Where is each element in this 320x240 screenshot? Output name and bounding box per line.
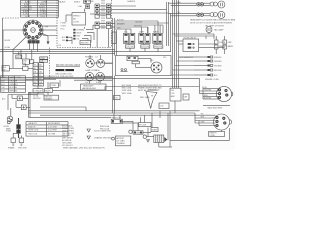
svg-text:CONN: CONN <box>51 85 57 87</box>
svg-text:PULSE LIM TR: PULSE LIM TR <box>184 37 197 39</box>
pod label box <box>72 13 86 26</box>
headlamp note text <box>190 18 237 27</box>
chassis harness label <box>179 56 194 59</box>
battery BT1 <box>154 135 164 143</box>
svg-text:R.H.CTRL: R.H.CTRL <box>141 46 149 48</box>
svg-text:START: START <box>153 31 160 34</box>
svg-text:CONN: CONN <box>209 135 215 137</box>
svg-text:BLK/RED: BLK/RED <box>204 97 212 99</box>
stator connector P2 <box>214 114 232 130</box>
pod left pin list <box>61 23 67 31</box>
battery feed circle <box>112 137 115 140</box>
svg-text:V.R.: V.R. <box>163 57 167 59</box>
pod stack drop wires <box>97 29 108 48</box>
svg-text:START: START <box>152 128 159 131</box>
svg-text:YEL/RED: YEL/RED <box>135 22 143 24</box>
svg-text:T-BLK: T-BLK <box>40 16 46 18</box>
ignition coil box <box>114 96 121 100</box>
svg-text:HI BEAM: HI BEAM <box>85 56 93 59</box>
battery arrow marker <box>164 137 167 142</box>
relay boxes mid-left <box>33 89 53 93</box>
headlight connector labels <box>85 56 100 85</box>
speedo top connector stack <box>78 0 91 9</box>
wires from relays <box>8 82 113 95</box>
svg-text:MAG SIDE VIEW: MAG SIDE VIEW <box>208 107 223 110</box>
accessory plug box <box>12 96 28 101</box>
svg-text:YB14A-A2: YB14A-A2 <box>116 142 124 145</box>
right headlight socket connector <box>197 13 204 16</box>
svg-text:WIRE DIAGRAM - 1994 400L 4X4,: WIRE DIAGRAM - 1994 400L 4X4, W948140 P/… <box>63 147 105 150</box>
svg-text:CLSTR: CLSTR <box>73 21 80 23</box>
indicator bulb above relay box <box>205 28 207 30</box>
indicator lower pad rows <box>62 36 68 42</box>
dimmer switch box <box>23 59 30 65</box>
stator connector lead wires <box>195 113 216 126</box>
resistor stack R1 <box>214 36 226 54</box>
svg-text:CHASSIS: CHASSIS <box>127 0 136 3</box>
brake switch box <box>16 55 22 59</box>
wires connector stacks to chassis harness <box>90 6 169 27</box>
svg-text:LIGHT COIL: LIGHT COIL <box>28 130 38 132</box>
svg-text:L.H.CTRL: L.H.CTRL <box>126 46 134 48</box>
thumb warmer box <box>30 60 34 64</box>
tail lamp feed wires <box>173 33 215 40</box>
accessory plug box 2 <box>16 105 30 110</box>
svg-text:PRIMARY: PRIMARY <box>45 97 54 100</box>
left edge label <box>2 97 6 100</box>
svg-text:RED/WH: RED/WH <box>10 81 18 83</box>
ground symbol (arrow) at switch <box>47 36 50 45</box>
svg-text:REGULATOR MOUNTS TO: REGULATOR MOUNTS TO <box>138 84 162 87</box>
fuse holder boxes above strip <box>40 57 48 63</box>
switch position label <box>45 26 48 28</box>
svg-text:YL: YL <box>34 75 36 77</box>
accessory lead rows (right middle) <box>194 56 222 77</box>
svg-text:GRN 14GA: GRN 14GA <box>122 89 132 92</box>
svg-text:R.H.: R.H. <box>96 70 100 72</box>
svg-text:BRN/WHT: BRN/WHT <box>117 24 125 26</box>
headlight connector HL2 <box>97 59 105 67</box>
left headlight bulb B1 <box>218 1 225 8</box>
svg-text:BRN/WH: BRN/WH <box>214 57 222 59</box>
battery circuit wires <box>122 121 172 147</box>
chassis vertical harness riser <box>113 18 117 113</box>
stator connector wire labels <box>201 114 206 124</box>
svg-text:ASM: ASM <box>171 95 175 98</box>
wire color legend list <box>62 125 75 147</box>
right headlight bulb socket pins <box>210 13 217 17</box>
main harness bus (horizontal, mid) <box>0 50 171 54</box>
svg-text:SW: SW <box>2 69 5 71</box>
lower horizontal bus <box>0 78 200 87</box>
accessory pin table (lower-left) <box>1 76 26 93</box>
svg-text:RED/WH: RED/WH <box>214 70 222 72</box>
inline connector strip CS1 <box>33 63 38 87</box>
svg-text:OIL: OIL <box>77 39 80 41</box>
legend symbol triangle 1 <box>87 129 111 132</box>
kill switch pair SW1 <box>124 33 135 43</box>
svg-text:RESISTANCE: RESISTANCE <box>48 122 61 125</box>
wire from switch to left harness <box>3 30 23 78</box>
svg-text:HEADLAMPS 12V 60/60W HALOGEN S: HEADLAMPS 12V 60/60W HALOGEN SEALED BEAM <box>190 18 235 21</box>
bus drop stubs bottom <box>114 111 170 147</box>
ignition coil secondary box <box>170 88 181 113</box>
regulator internal marks <box>121 69 128 72</box>
plug cap box <box>183 94 189 100</box>
svg-text:HARNESS ASM: HARNESS ASM <box>82 87 96 90</box>
wire switch to ground arrow <box>42 33 49 36</box>
ignition switch pin table <box>21 0 59 18</box>
headlamp feed wires top-right <box>169 3 211 16</box>
svg-text:SPEEDO: SPEEDO <box>73 15 81 17</box>
svg-text:YL: YL <box>39 75 41 77</box>
headlight connector HL1 <box>86 59 95 68</box>
svg-text:B-G: B-G <box>1 84 5 86</box>
headlamp harness label box <box>81 84 107 90</box>
svg-text:14 GA: 14 GA <box>88 0 94 3</box>
engine connector underline <box>203 104 230 106</box>
svg-text:ENGINE CONN: ENGINE CONN <box>205 79 219 81</box>
svg-text:TAIL LAMP: TAIL LAMP <box>214 28 224 31</box>
bus annotation <box>44 75 56 78</box>
engine connector label <box>205 79 219 81</box>
relay box feed wires <box>177 36 225 48</box>
starter relay small box <box>151 128 158 132</box>
switch labels above <box>124 31 160 34</box>
svg-text:GRN/WH: GRN/WH <box>214 61 222 63</box>
wire label left of switch <box>5 40 11 49</box>
starter solenoid box <box>133 131 144 135</box>
switch label boxes below <box>126 45 163 49</box>
voltage regulator module box <box>116 56 172 76</box>
tail lamp bulb B3 <box>206 27 212 33</box>
svg-text:OFF: OFF <box>45 26 48 28</box>
svg-text:KILL: KILL <box>124 32 128 34</box>
horn H1 <box>7 108 13 124</box>
right vertical harness bundle <box>167 0 179 88</box>
harness boundary near strips (dashed) <box>49 48 51 81</box>
svg-text:FRAME: FRAME <box>8 146 15 149</box>
coil bracket box <box>159 103 169 109</box>
ground note text <box>8 146 28 149</box>
engine connector note <box>208 107 223 110</box>
svg-text:RED 14GA: RED 14GA <box>100 127 110 130</box>
ground lug box engine <box>19 136 24 146</box>
svg-text:CHASSIS GROUND: CHASSIS GROUND <box>94 136 112 139</box>
svg-text:4WD IND: 4WD IND <box>81 42 89 44</box>
tail lamp label <box>214 28 224 31</box>
pod internal labels <box>59 0 95 47</box>
svg-text:W-BLU: W-BLU <box>74 2 81 4</box>
starter switch pair SW3 <box>153 33 162 43</box>
switch riser wires <box>126 21 163 33</box>
svg-text:STATOR: STATOR <box>28 125 36 128</box>
svg-text:CDI: CDI <box>150 60 154 62</box>
svg-text:WARM: WARM <box>228 45 234 48</box>
svg-text:H ILL: H ILL <box>61 29 65 31</box>
svg-text:SW: SW <box>23 63 26 65</box>
stator connector label box <box>209 132 225 137</box>
headlight switch pair SW2 <box>139 33 150 43</box>
svg-text:RED 12GA TO SOL: RED 12GA TO SOL <box>56 72 73 75</box>
legend symbol triangle 2 <box>87 136 112 139</box>
auxiliary terminal circle <box>129 130 132 133</box>
svg-text:CAPACITY: CAPACITY <box>28 122 38 125</box>
left headlight bulb socket pins <box>210 2 217 6</box>
headlight connector HL4 <box>96 72 105 81</box>
svg-text:COIL: COIL <box>160 106 164 108</box>
brake light relay box <box>183 37 199 51</box>
inline connector stack J2 <box>106 4 110 18</box>
stator drop wire <box>170 128 230 140</box>
svg-text:ETC SW: ETC SW <box>139 125 146 127</box>
svg-text:YEL/RED: YEL/RED <box>204 89 212 91</box>
inline connector stack J3 <box>95 22 111 29</box>
override switch box <box>23 66 28 70</box>
left frame wire <box>2 18 4 78</box>
svg-text:BLK/YEL: BLK/YEL <box>117 20 124 22</box>
horn label <box>4 126 10 128</box>
svg-text:LIGHT: LIGHT <box>139 32 145 34</box>
svg-text:BLK/W: BLK/W <box>5 40 11 42</box>
label text below regulator <box>122 84 162 99</box>
wires switch upper contacts <box>42 26 58 36</box>
diagram title text <box>63 147 105 150</box>
svg-text:COIL: COIL <box>114 97 118 99</box>
wire from switch to pod boundary <box>43 29 57 31</box>
svg-text:TRIG COIL: TRIG COIL <box>28 133 37 135</box>
svg-text:GA-BLK: GA-BLK <box>59 1 67 4</box>
4wd switch label box <box>2 66 9 72</box>
svg-text:0.24 OHM: 0.24 OHM <box>48 130 57 132</box>
svg-text:HI BEAM: HI BEAM <box>77 29 85 32</box>
solid state ground triangle <box>147 140 150 143</box>
battery box small boxes <box>115 136 130 146</box>
engine connector lead wires <box>200 78 220 99</box>
solenoid terminal circle <box>143 135 146 138</box>
battery info table <box>26 122 68 137</box>
indicator terminal strip T1 <box>73 29 84 41</box>
svg-text:TAILLAMP 12V 8/27W: TAILLAMP 12V 8/27W <box>205 25 224 28</box>
engine connector P1 <box>216 86 232 101</box>
ignition switch S1 (rear view) <box>23 20 43 40</box>
engine connector wire labels <box>204 87 212 100</box>
svg-text:LT RELAY: LT RELAY <box>34 89 43 92</box>
gauge battery table <box>56 64 81 78</box>
svg-text:23 OHM: 23 OHM <box>48 133 55 135</box>
svg-text:BLU/WH: BLU/WH <box>10 87 18 89</box>
svg-text:BATTERY GROUND CABLE: BATTERY GROUND CABLE <box>56 64 81 67</box>
throttle safety box <box>139 123 152 127</box>
wire from terminals down to bus <box>30 43 38 51</box>
speedometer lead wires <box>66 15 106 22</box>
spark plug boot wedge <box>146 89 160 109</box>
ground lug box frame <box>11 136 15 146</box>
pod harness boundary (dashed) <box>3 0 112 48</box>
svg-text:16 GA: 16 GA <box>5 46 11 49</box>
switch drop wires to box <box>129 44 158 52</box>
lower harness bus <box>28 111 199 118</box>
battery connector block pair <box>17 125 21 134</box>
svg-text:BRN/YEL: BRN/YEL <box>10 90 18 92</box>
regulator wires inside <box>136 59 151 68</box>
svg-text:F 4WD: F 4WD <box>61 23 67 25</box>
svg-text:TO CHASSIS: TO CHASSIS <box>44 75 56 78</box>
solenoid pads <box>134 132 142 134</box>
left headlight socket connector <box>197 3 204 6</box>
aux connector box <box>50 83 59 88</box>
svg-text:RED/WH: RED/WH <box>33 98 41 100</box>
main fuse label <box>6 127 12 132</box>
wire gauge labels lower-left <box>33 95 41 100</box>
svg-text:THROTTL: THROTTL <box>154 46 162 48</box>
CDI connector circle <box>151 62 162 73</box>
accessory row feeders from bundle <box>171 57 194 75</box>
svg-text:WHT 14GA: WHT 14GA <box>122 92 132 95</box>
ignition coil primary box <box>44 92 59 100</box>
lamp wires to pins <box>90 55 101 84</box>
svg-text:SPARK PLUG: SPARK PLUG <box>148 89 160 92</box>
svg-text:0.19 OHM: 0.19 OHM <box>48 126 57 128</box>
svg-text:BATTERY: BATTERY <box>116 137 125 140</box>
svg-text:COIL: COIL <box>171 93 175 95</box>
fuse holder block <box>111 117 122 124</box>
regulator diode blocks <box>127 56 139 64</box>
wire diagonal from switch to lower-left <box>13 37 27 63</box>
svg-text:VIO-VIOLET: VIO-VIOLET <box>62 145 73 147</box>
chassis harness top label <box>127 0 136 3</box>
wires left bottom <box>8 92 48 138</box>
headlight connector HL3 <box>85 72 94 81</box>
right headlight bulb B2 <box>218 11 225 18</box>
wires left switch cluster <box>9 50 33 69</box>
resistor stack R2 <box>223 36 233 54</box>
svg-text:RED 14GA: RED 14GA <box>122 87 132 90</box>
svg-text:HEADLAMP: HEADLAMP <box>83 85 94 88</box>
svg-text:ENG GRD: ENG GRD <box>19 147 28 149</box>
inline connector stack J1 <box>95 4 99 18</box>
headlamp wire labels <box>177 2 181 14</box>
handlebar bus wires (center top) <box>115 21 169 29</box>
svg-text:BLK 14GA: BLK 14GA <box>122 84 132 87</box>
ignition switch terminal block <box>28 41 39 44</box>
svg-text:GRN/BLK: GRN/BLK <box>10 84 19 86</box>
fuse lead text <box>100 125 110 131</box>
4wd indicator box <box>80 41 91 45</box>
junction block (left of switches) <box>112 32 116 44</box>
svg-text:G SPD: G SPD <box>61 26 67 28</box>
svg-text:YEL/RED: YEL/RED <box>214 66 222 68</box>
lamp feed wires to riser <box>94 63 113 77</box>
svg-text:G-OR: G-OR <box>25 16 31 18</box>
svg-text:NOTE: DO NOT TOUCH GLASS WITH: NOTE: DO NOT TOUCH GLASS WITH FINGERS <box>190 22 233 25</box>
svg-text:RED 14GA: RED 14GA <box>140 96 150 99</box>
wires indicator strips <box>68 25 95 47</box>
handlebar bus wire labels <box>117 20 143 30</box>
vertical drop wires center-bottom <box>40 80 105 111</box>
svg-text:FUSE: FUSE <box>6 131 12 133</box>
inline connector strip CS2 <box>39 63 44 87</box>
svg-text:12V 14AH: 12V 14AH <box>116 140 125 143</box>
svg-text:BRN 14GA: BRN 14GA <box>100 125 110 128</box>
svg-text:GOE HARNESS: GOE HARNESS <box>179 56 194 59</box>
speedo feed arrow <box>84 9 86 12</box>
